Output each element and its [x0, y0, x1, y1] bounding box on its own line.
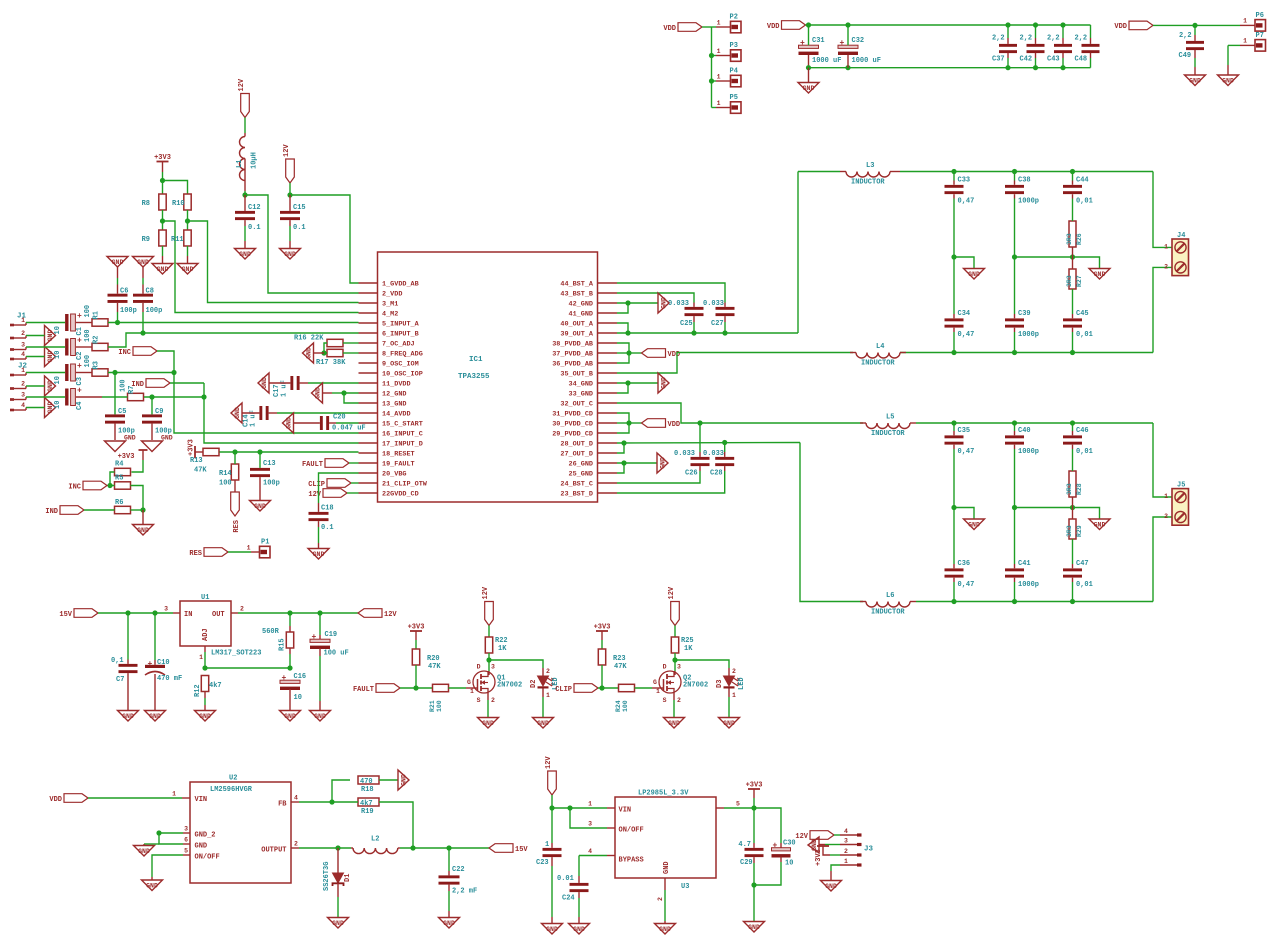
svg-text:J5: J5: [1177, 482, 1185, 490]
wire GND join: [159, 833, 183, 844]
junction C34 bottom: [951, 350, 956, 355]
wire: [154, 660, 156, 665]
flag 12V above R25: [668, 586, 679, 625]
wire: [916, 601, 1153, 603]
IC1 pin 31_PVDD_CD: [552, 411, 617, 419]
svg-text:OUT: OUT: [212, 611, 225, 619]
wire: [953, 328, 955, 332]
svg-text:C19: C19: [325, 631, 338, 639]
wire: [291, 847, 299, 849]
wire: [1007, 53, 1009, 58]
wire: [142, 312, 144, 333]
ground below C15: [280, 249, 301, 260]
wire +3V3 to VOUT: [753, 798, 755, 808]
wire: [607, 827, 615, 829]
wire C28 top lead: [724, 443, 726, 453]
svg-text:10: 10: [54, 376, 62, 384]
wire: [151, 877, 153, 880]
ground at pins 25/26: [657, 453, 668, 473]
svg-text:10: 10: [54, 326, 62, 334]
ground below C5: [105, 435, 136, 452]
wire: [259, 477, 261, 500]
wire P7 gnd stub: [1228, 44, 1240, 46]
svg-text:LP2985L_3.3V: LP2985L_3.3V: [638, 790, 689, 798]
junction col2 mid: [1012, 254, 1017, 259]
svg-text:0.033: 0.033: [703, 450, 724, 458]
inductor L5 INDUCTOR: [866, 414, 910, 439]
svg-text:+: +: [282, 674, 287, 683]
connector P5: [716, 94, 741, 113]
wire 12V down: [551, 795, 553, 808]
wire to D2: [489, 660, 543, 668]
wire L3 in: [798, 171, 840, 173]
wire: [753, 789, 755, 798]
ground at J3 pin3: [808, 837, 819, 853]
wire: [693, 303, 695, 307]
svg-text:R19: R19: [361, 808, 374, 816]
svg-text:15V: 15V: [515, 846, 528, 854]
svg-text:G: G: [467, 679, 471, 686]
wire J1.4-gnd: [26, 356, 45, 358]
svg-text:12V: 12V: [795, 833, 808, 841]
flag VDD at C31: [767, 21, 806, 31]
wire: [551, 857, 553, 866]
wire ON/OFF to gnd: [152, 855, 183, 877]
svg-text:100: 100: [84, 305, 92, 318]
svg-text:10: 10: [785, 860, 793, 868]
capacitor C13 100p: [250, 460, 280, 488]
junction R14 top: [232, 449, 237, 454]
svg-text:GND: GND: [668, 720, 680, 727]
wire: [674, 671, 676, 675]
junction C37 top: [1005, 22, 1010, 27]
flag VDD at C49: [1114, 21, 1153, 31]
wire C19 top lead: [319, 613, 321, 635]
wire pin42 gnd: [617, 302, 658, 304]
wire: [840, 171, 846, 173]
svg-text:1: 1: [470, 688, 474, 695]
IC1 pin 44_BST_A: [560, 281, 617, 289]
wire FAULT to R21: [400, 687, 433, 689]
wire: [953, 181, 955, 185]
svg-text:GND_2: GND_2: [195, 832, 216, 840]
wire: [183, 843, 190, 845]
wire J1.2-gnd: [26, 335, 45, 337]
wire: [753, 843, 755, 848]
supply +3V3 at R23: [594, 624, 611, 632]
svg-text:OUTPUT: OUTPUT: [261, 847, 286, 855]
wire: [244, 220, 246, 226]
svg-text:10: 10: [54, 401, 62, 409]
capacitor C1 10: [54, 312, 84, 336]
resistor R21 100: [429, 684, 449, 712]
svg-text:C20: C20: [333, 414, 346, 422]
svg-text:+3V3: +3V3: [746, 782, 763, 790]
ground below R5/R6: [133, 525, 154, 536]
svg-text:GND: GND: [332, 920, 344, 927]
wire R4-R5 left join: [110, 472, 115, 486]
junction C33 top: [951, 169, 956, 174]
svg-text:28_OUT_D: 28_OUT_D: [560, 441, 593, 449]
wire C9 top lead: [151, 397, 153, 414]
svg-text:1000p: 1000p: [1018, 448, 1039, 456]
wire C-col3 to R28: [1072, 449, 1074, 471]
svg-text:G: G: [653, 679, 657, 686]
svg-text:100: 100: [84, 355, 92, 368]
svg-text:GND: GND: [195, 843, 208, 851]
ground at J2 pin2: [45, 376, 56, 396]
IC1 pin 21_CLIP_OTW: [359, 481, 428, 489]
junction drain/D2: [486, 657, 491, 662]
svg-text:GND: GND: [546, 926, 558, 933]
wire BST_B pin43 to C25: [617, 293, 694, 303]
svg-text:R21: R21: [429, 700, 436, 712]
junction R5/R6: [140, 507, 145, 512]
capacitor C7 0,1: [111, 657, 138, 684]
flag VDD at P2: [663, 23, 702, 33]
svg-text:2N7002: 2N7002: [497, 682, 522, 690]
svg-text:D1: D1: [344, 874, 352, 882]
ground at J1 pin4: [45, 347, 56, 367]
wire: [850, 352, 856, 354]
svg-text:CLIP: CLIP: [555, 686, 572, 694]
capacitor C14 1 uF: [243, 406, 269, 427]
svg-text:VDD: VDD: [49, 796, 62, 804]
IC1 pin 16_INPUT_C: [359, 431, 423, 439]
svg-text:GND: GND: [1094, 271, 1106, 278]
svg-text:4_M2: 4_M2: [382, 311, 398, 319]
junction VDD C31: [806, 22, 811, 27]
resistor R5: [115, 475, 131, 490]
svg-text:LM317_SOT223: LM317_SOT223: [211, 650, 261, 658]
junction OUT_A: [625, 330, 630, 335]
svg-text:R16 22K: R16 22K: [294, 335, 324, 343]
svg-text:26_GND: 26_GND: [569, 461, 593, 469]
svg-text:GND: GND: [1094, 522, 1106, 529]
wire: [76, 346, 92, 348]
svg-text:C23: C23: [536, 859, 549, 867]
wire: [699, 466, 701, 471]
wire to VDD flag CD: [629, 422, 642, 424]
svg-text:3: 3: [677, 664, 681, 671]
wire R25 to drain: [674, 653, 676, 671]
wire: [1014, 431, 1016, 435]
junction IND/R7: [201, 394, 206, 399]
ground filter col3: [1089, 519, 1110, 530]
IC1 pin 36_PVDD_AB: [552, 361, 617, 369]
junction C44 top: [1070, 169, 1075, 174]
IC1 pin 37_PVDD_AB: [552, 351, 617, 359]
svg-text:+: +: [77, 362, 82, 371]
svg-text:C33: C33: [958, 177, 971, 185]
wire: [1072, 582, 1074, 602]
wire col1 to mid: [953, 449, 955, 508]
connector J1 pin 2: [10, 330, 26, 339]
svg-text:1: 1: [21, 317, 25, 324]
svg-text:12V: 12V: [384, 611, 397, 619]
svg-text:24_BST_C: 24_BST_C: [560, 481, 593, 489]
ground below D2: [533, 718, 554, 729]
wire: [117, 312, 119, 323]
capacitor C2 10: [54, 337, 84, 361]
svg-text:IND: IND: [131, 381, 144, 389]
capacitor C29 4.7: [738, 841, 763, 867]
wire OUT_A riser to L3: [797, 172, 799, 334]
IC1 pin 25_GND: [569, 471, 617, 479]
wire to gnd sym: [144, 843, 159, 845]
transistor Q2 2N7002: [653, 664, 708, 705]
svg-text:30_PVDD_CD: 30_PVDD_CD: [552, 421, 593, 429]
wire: [1007, 38, 1009, 44]
svg-text:R24: R24: [615, 700, 622, 712]
ground below C31: [798, 83, 819, 94]
svg-text:GND: GND: [182, 266, 194, 273]
junction C19 top: [317, 610, 322, 615]
svg-text:0.033: 0.033: [668, 300, 689, 308]
wire to screw pin1: [1153, 172, 1172, 248]
IC1 pin 43_BST_B: [560, 291, 617, 299]
ground below R11: [177, 264, 198, 275]
wire: [289, 689, 291, 710]
svg-text:P5: P5: [730, 94, 738, 102]
wire +3V3 to R20: [415, 640, 417, 649]
capacitor C20 0.047 uF: [320, 414, 366, 433]
wire: [953, 332, 955, 353]
svg-text:0,01: 0,01: [1076, 581, 1093, 589]
wire R15 top lead: [289, 613, 291, 626]
svg-text:GND: GND: [284, 251, 296, 258]
IC1 pin 35_OUT_B: [560, 371, 617, 379]
wire OUT_A row: [617, 332, 798, 334]
svg-text:GND: GND: [537, 720, 549, 727]
wire: [294, 422, 320, 424]
svg-text:D3: D3: [716, 680, 724, 688]
wire: [953, 194, 955, 198]
svg-text:44_BST_A: 44_BST_A: [560, 281, 594, 289]
ground below D1: [328, 918, 349, 929]
connector J1 pin 1: [10, 317, 26, 326]
svg-text:100: 100: [120, 379, 128, 392]
svg-text:+: +: [148, 660, 153, 669]
svg-text:0.1: 0.1: [321, 524, 334, 532]
wire: [664, 921, 666, 923]
svg-text:1: 1: [545, 841, 549, 849]
svg-text:39_OUT_A: 39_OUT_A: [560, 331, 594, 339]
junction C49: [1192, 23, 1197, 28]
wire BYPASS: [579, 855, 607, 857]
wire: [953, 564, 955, 568]
junction C32 top: [845, 22, 850, 27]
junction U2 gnd: [156, 830, 161, 835]
wire R9 gnd lead: [162, 246, 164, 256]
wire: [337, 883, 339, 897]
svg-text:R18: R18: [361, 786, 374, 794]
wire PVDD_CD bracket: [617, 413, 629, 433]
svg-text:R3: R3: [93, 361, 101, 369]
wire: [323, 392, 333, 394]
svg-text:GND: GND: [47, 402, 54, 414]
flag VDD at PVDD_CD: [642, 419, 681, 429]
wire BST_A pin44 to C27: [617, 283, 725, 303]
wire: [578, 876, 580, 883]
svg-text:C2: C2: [76, 352, 84, 360]
svg-text:+3V3: +3V3: [188, 439, 196, 456]
svg-text:R28: R28: [1076, 483, 1083, 495]
svg-text:560R: 560R: [262, 628, 280, 636]
wire +3V3 down: [162, 172, 164, 194]
svg-text:20_VBG: 20_VBG: [382, 471, 406, 479]
svg-text:L1: L1: [236, 160, 244, 168]
wire: [1072, 257, 1074, 269]
ground below C29: [744, 922, 765, 933]
wire C25 bottom: [693, 322, 695, 333]
IC1 pin 11_DVDD: [359, 381, 411, 389]
ground at pins 12/13: [312, 383, 323, 403]
wire: [76, 322, 92, 324]
IC1 pin 24_BST_C: [560, 481, 617, 489]
wire: [1014, 578, 1016, 582]
svg-text:GND: GND: [47, 351, 54, 363]
IC1 pin 20_VBG: [359, 471, 407, 479]
wire gnd-J3.3: [825, 844, 840, 846]
svg-text:4: 4: [294, 795, 298, 802]
wire M1 to pin3: [188, 221, 359, 303]
capacitor C28 0.033: [703, 450, 734, 478]
junction R15 top: [287, 610, 292, 615]
svg-text:4k7: 4k7: [209, 682, 222, 690]
wire: [1014, 328, 1016, 332]
svg-text:SS26T3G: SS26T3G: [323, 862, 331, 891]
wire: [860, 422, 866, 424]
wire VIN: [552, 807, 607, 809]
svg-text:32_OUT_C: 32_OUT_C: [560, 401, 593, 409]
wire: [1014, 194, 1016, 198]
svg-text:1: 1: [588, 801, 592, 808]
wire: [244, 133, 246, 137]
wire ON/OFF: [570, 808, 607, 828]
wire C24 gnd lead: [578, 898, 580, 917]
svg-text:3: 3: [21, 392, 25, 399]
wire: [847, 55, 849, 68]
connector J1 pin 4: [10, 351, 26, 360]
svg-text:1000p: 1000p: [1018, 581, 1039, 589]
capacitor C34 0,47: [945, 310, 975, 339]
wire: [289, 220, 291, 226]
wire C23 top lead: [551, 808, 553, 843]
svg-text:23_BST_D: 23_BST_D: [560, 491, 593, 499]
svg-text:INDUCTOR: INDUCTOR: [861, 360, 895, 368]
svg-text:R10: R10: [172, 200, 185, 208]
svg-text:0,47: 0,47: [958, 581, 975, 589]
junction C42 bottom: [1033, 65, 1038, 70]
wire: [724, 316, 726, 322]
svg-text:2: 2: [1164, 263, 1168, 270]
supply +3V3 at J3: [815, 846, 829, 866]
wire: [488, 671, 490, 675]
capacitor C47 0,01: [1063, 560, 1093, 589]
capacitor C44 0,01: [1063, 177, 1093, 206]
svg-text:+: +: [77, 387, 82, 396]
wire net INPUT_B R2-pin6: [108, 333, 359, 347]
junction R8/R10: [160, 178, 165, 183]
junction C39 bottom: [1012, 350, 1017, 355]
IC1 pin 22GVDD_CD: [359, 491, 419, 499]
wire: [318, 543, 320, 548]
wire C28 to pin23 BST_D: [617, 471, 725, 493]
ground filter col3: [1089, 269, 1110, 280]
svg-text:1: 1: [732, 692, 736, 699]
connector J1 pin 3: [10, 342, 26, 351]
wire: [1062, 53, 1064, 58]
junction C47 bottom: [1070, 599, 1075, 604]
wire: [1007, 25, 1009, 38]
svg-text:1: 1: [1164, 243, 1168, 250]
svg-text:2_VDD: 2_VDD: [382, 291, 402, 299]
supply +3V3 at R20: [408, 624, 425, 632]
svg-text:C15: C15: [293, 204, 306, 212]
wire: [117, 267, 119, 278]
wire net INC R3 row: [108, 372, 174, 374]
wire: [448, 871, 450, 875]
wire: [890, 171, 900, 173]
svg-text:CLIP: CLIP: [308, 481, 325, 489]
wire 12V-L1: [244, 118, 246, 134]
connector P3: [716, 42, 741, 61]
svg-text:15V: 15V: [59, 611, 72, 619]
svg-text:2: 2: [491, 697, 495, 704]
svg-text:R11: R11: [171, 236, 184, 244]
wire: [1072, 497, 1074, 508]
resistor R26 3R3: [1066, 221, 1083, 247]
capacitor C17 1 uF: [273, 376, 300, 397]
junction C26 top: [697, 420, 702, 425]
svg-text:1: 1: [546, 692, 550, 699]
svg-text:4: 4: [844, 828, 848, 835]
svg-text:1: 1: [1164, 493, 1168, 500]
wire: [318, 503, 320, 512]
svg-text:C1: C1: [76, 327, 84, 335]
svg-text:35_OUT_B: 35_OUT_B: [560, 371, 593, 379]
svg-text:17_INPUT_D: 17_INPUT_D: [382, 441, 423, 449]
wire: [162, 256, 164, 263]
wire OUT_D row: [617, 442, 800, 445]
svg-text:INDUCTOR: INDUCTOR: [871, 609, 905, 617]
svg-text:0,1: 0,1: [111, 657, 124, 665]
junction C28 top: [722, 440, 727, 445]
svg-text:C47: C47: [1076, 560, 1089, 568]
svg-text:1: 1: [1243, 18, 1247, 25]
svg-text:BYPASS: BYPASS: [619, 857, 644, 865]
junction pins41/42: [625, 300, 630, 305]
IC1 pin 23_BST_D: [560, 491, 617, 499]
wire R23 bottom: [601, 665, 603, 688]
svg-text:C42: C42: [1020, 56, 1033, 64]
svg-text:5: 5: [736, 801, 740, 808]
capacitor C4 10: [54, 387, 84, 411]
junction C35 top: [951, 420, 956, 425]
wire pin37: [617, 352, 629, 354]
wire 3V3-J3.2: [830, 854, 840, 856]
wire: [448, 885, 450, 891]
junction C37 bottom: [1005, 65, 1010, 70]
svg-text:1: 1: [247, 545, 251, 552]
junction M1 tap: [185, 218, 190, 223]
wire: [142, 285, 144, 294]
junction C8/INPUT_B: [140, 330, 145, 335]
svg-text:GND: GND: [443, 920, 455, 927]
wire C31 top lead: [808, 25, 810, 45]
wire: [578, 917, 580, 923]
